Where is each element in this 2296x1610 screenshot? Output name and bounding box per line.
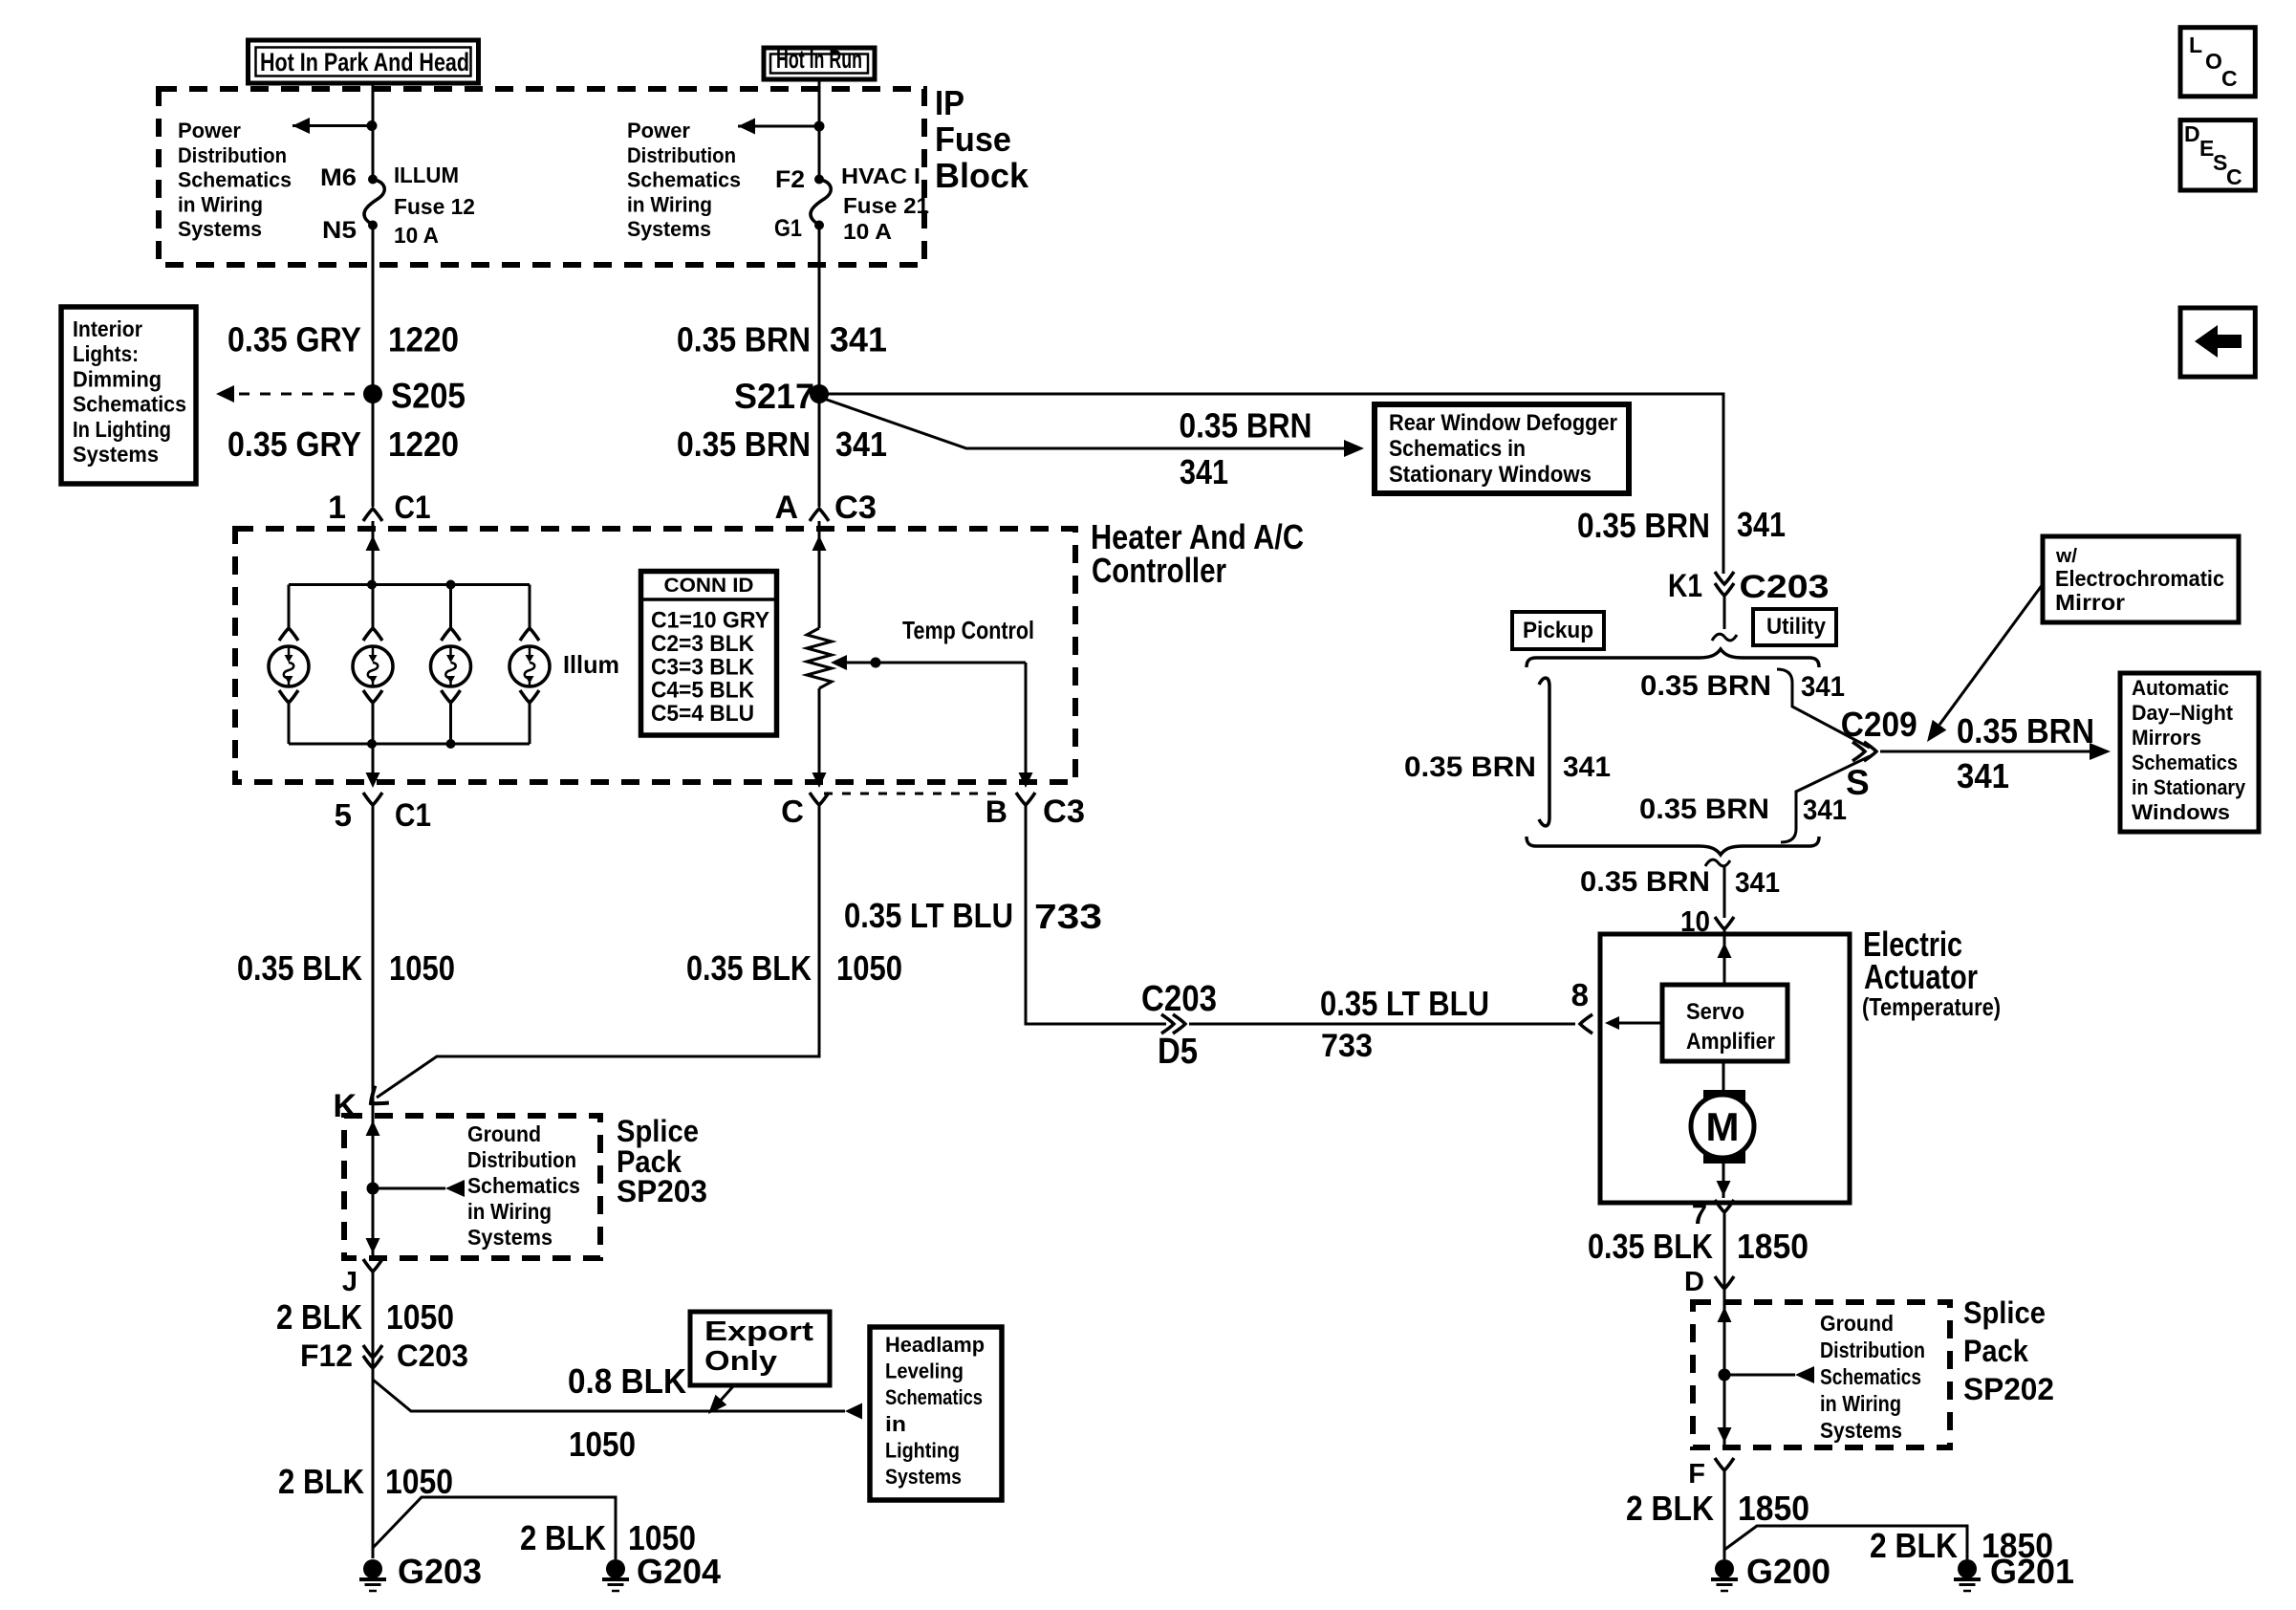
svg-text:Stationary Windows: Stationary Windows: [1389, 462, 1592, 488]
svg-text:0.35 BRN: 0.35 BRN: [1404, 751, 1536, 783]
svg-text:0.35 BRN: 0.35 BRN: [1580, 866, 1710, 898]
svg-text:Systems: Systems: [885, 1465, 962, 1489]
svg-text:341: 341: [1803, 794, 1847, 826]
svg-text:C203: C203: [397, 1338, 468, 1373]
svg-text:341: 341: [1801, 671, 1845, 703]
svg-text:Windows: Windows: [2132, 800, 2230, 824]
svg-text:341: 341: [830, 320, 887, 359]
svg-text:Systems: Systems: [627, 217, 711, 241]
svg-text:Dimming: Dimming: [73, 366, 162, 391]
svg-text:Splice: Splice: [617, 1114, 699, 1148]
svg-text:C3: C3: [834, 490, 877, 526]
svg-text:G200: G200: [1746, 1552, 1830, 1591]
svg-text:D5: D5: [1158, 1032, 1198, 1072]
svg-text:0.35 GRY: 0.35 GRY: [227, 320, 361, 359]
svg-text:Schematics: Schematics: [1820, 1364, 1921, 1389]
svg-text:Interior: Interior: [73, 316, 142, 341]
svg-text:C: C: [781, 794, 804, 829]
svg-text:F2: F2: [775, 166, 805, 193]
svg-text:Schematics: Schematics: [627, 168, 741, 192]
svg-text:Block: Block: [935, 156, 1029, 195]
svg-text:M6: M6: [320, 164, 357, 191]
svg-text:Utility: Utility: [1766, 614, 1827, 640]
svg-text:C: C: [2221, 66, 2238, 91]
svg-text:Pickup: Pickup: [1523, 618, 1593, 643]
svg-text:Illum: Illum: [563, 650, 619, 679]
svg-text:C1: C1: [395, 797, 431, 834]
svg-text:0.35 BLK: 0.35 BLK: [686, 948, 812, 988]
svg-text:M: M: [1706, 1104, 1740, 1149]
svg-text:C4=5 BLK: C4=5 BLK: [651, 678, 754, 704]
svg-text:O: O: [2205, 49, 2222, 74]
svg-text:C2=3 BLK: C2=3 BLK: [651, 631, 754, 657]
svg-text:Systems: Systems: [178, 217, 262, 241]
svg-text:J: J: [342, 1267, 357, 1297]
svg-text:In Lighting: In Lighting: [73, 417, 171, 442]
svg-text:Schematics in: Schematics in: [1389, 436, 1526, 462]
svg-text:0.35 BRN: 0.35 BRN: [1577, 506, 1710, 545]
svg-text:1220: 1220: [388, 424, 459, 464]
svg-text:Schematics: Schematics: [467, 1173, 580, 1198]
svg-text:0.35 LT BLU: 0.35 LT BLU: [1320, 984, 1489, 1023]
svg-text:CONN ID: CONN ID: [664, 575, 754, 597]
svg-text:Systems: Systems: [1820, 1418, 1902, 1443]
svg-text:Pack: Pack: [1963, 1334, 2028, 1368]
svg-text:K: K: [333, 1088, 357, 1124]
svg-text:C209: C209: [1841, 705, 1917, 744]
svg-text:5: 5: [335, 797, 352, 833]
svg-text:Actuator: Actuator: [1864, 957, 1978, 996]
svg-text:Systems: Systems: [73, 442, 159, 467]
svg-text:Schematics: Schematics: [178, 168, 292, 192]
svg-text:1050: 1050: [385, 1462, 453, 1501]
svg-text:0.35 BLK: 0.35 BLK: [237, 948, 362, 988]
svg-text:S205: S205: [391, 377, 466, 416]
svg-text:1050: 1050: [836, 948, 902, 988]
svg-text:341: 341: [1563, 751, 1611, 783]
svg-text:C203: C203: [1141, 979, 1217, 1019]
svg-text:Ground: Ground: [467, 1121, 541, 1146]
svg-text:341: 341: [1180, 452, 1228, 491]
svg-text:B: B: [986, 794, 1007, 829]
svg-text:10 A: 10 A: [394, 223, 439, 248]
svg-text:Hot In Park And Head: Hot In Park And Head: [260, 48, 469, 76]
svg-text:1850: 1850: [1737, 1227, 1809, 1266]
svg-text:Schematics: Schematics: [2132, 751, 2238, 774]
svg-text:in: in: [885, 1412, 906, 1436]
svg-text:SP203: SP203: [617, 1174, 707, 1208]
svg-text:Lighting: Lighting: [885, 1438, 960, 1462]
svg-text:Systems: Systems: [467, 1225, 552, 1250]
svg-text:D: D: [2184, 121, 2200, 146]
svg-text:Splice: Splice: [1963, 1295, 2046, 1330]
svg-text:N5: N5: [322, 217, 357, 244]
svg-text:2 BLK: 2 BLK: [278, 1462, 364, 1501]
svg-text:0.35 BRN: 0.35 BRN: [677, 320, 811, 359]
svg-text:Leveling: Leveling: [885, 1360, 964, 1383]
svg-text:Export: Export: [704, 1316, 813, 1347]
svg-text:G204: G204: [637, 1552, 721, 1591]
svg-text:D: D: [1684, 1267, 1704, 1297]
svg-text:341: 341: [835, 424, 887, 464]
svg-text:0.8 BLK: 0.8 BLK: [568, 1361, 686, 1401]
svg-text:C1=10 GRY: C1=10 GRY: [651, 608, 769, 634]
svg-text:G203: G203: [398, 1552, 482, 1591]
svg-text:Fuse 21: Fuse 21: [843, 193, 929, 218]
svg-text:341: 341: [1957, 756, 2009, 795]
svg-text:K1: K1: [1668, 568, 1702, 604]
svg-text:1: 1: [328, 490, 346, 526]
svg-text:Ground: Ground: [1820, 1311, 1894, 1336]
svg-text:Rear Window Defogger: Rear Window Defogger: [1389, 410, 1617, 436]
svg-text:C5=4 BLU: C5=4 BLU: [651, 701, 754, 727]
svg-text:IP: IP: [935, 83, 964, 122]
svg-text:Amplifier: Amplifier: [1686, 1029, 1775, 1055]
svg-text:1050: 1050: [569, 1425, 636, 1464]
svg-text:0.35 BRN: 0.35 BRN: [1639, 794, 1769, 825]
svg-text:Schematics: Schematics: [73, 392, 186, 417]
svg-text:0.35 BRN: 0.35 BRN: [1180, 406, 1312, 446]
svg-text:1050: 1050: [386, 1297, 454, 1337]
svg-text:L: L: [2189, 33, 2202, 57]
svg-text:S217: S217: [734, 377, 814, 416]
svg-text:0.35 BRN: 0.35 BRN: [677, 424, 811, 464]
svg-text:G1: G1: [774, 215, 802, 242]
svg-text:Fuse 12: Fuse 12: [394, 194, 475, 219]
svg-text:Day–Night: Day–Night: [2132, 701, 2233, 725]
svg-text:8: 8: [1571, 977, 1589, 1012]
svg-text:Headlamp: Headlamp: [885, 1333, 985, 1357]
svg-text:733: 733: [1321, 1028, 1373, 1064]
svg-text:Fuse: Fuse: [935, 120, 1011, 159]
svg-text:Distribution: Distribution: [178, 143, 287, 167]
svg-text:C1: C1: [395, 490, 431, 526]
svg-text:341: 341: [1737, 505, 1786, 544]
svg-text:Controller: Controller: [1092, 551, 1226, 590]
svg-text:2 BLK: 2 BLK: [520, 1518, 606, 1557]
svg-text:733: 733: [1034, 897, 1102, 936]
svg-text:Mirrors: Mirrors: [2132, 726, 2201, 750]
svg-text:SP202: SP202: [1963, 1372, 2054, 1406]
svg-text:Distribution: Distribution: [467, 1147, 576, 1172]
svg-text:C203: C203: [1740, 569, 1830, 605]
svg-text:S: S: [1846, 763, 1870, 802]
svg-text:Distribution: Distribution: [1820, 1338, 1925, 1362]
svg-text:in Wiring: in Wiring: [1820, 1391, 1901, 1416]
svg-text:F: F: [1688, 1459, 1705, 1490]
svg-text:1220: 1220: [388, 320, 459, 359]
svg-text:C3: C3: [1043, 794, 1085, 830]
svg-text:Mirror: Mirror: [2055, 590, 2125, 615]
svg-text:0.35 BRN: 0.35 BRN: [1957, 711, 2094, 751]
svg-text:Hot In Run: Hot In Run: [776, 45, 862, 74]
svg-text:0.35 BRN: 0.35 BRN: [1640, 670, 1771, 702]
svg-text:w/: w/: [2055, 546, 2077, 567]
svg-text:Power: Power: [178, 119, 241, 142]
svg-text:2 BLK: 2 BLK: [1626, 1489, 1714, 1528]
svg-text:(Temperature): (Temperature): [1862, 992, 2001, 1021]
svg-text:2 BLK: 2 BLK: [276, 1297, 362, 1337]
svg-text:1850: 1850: [1738, 1489, 1809, 1528]
svg-text:F12: F12: [300, 1338, 353, 1373]
svg-text:HVAC I: HVAC I: [841, 163, 921, 188]
svg-text:1050: 1050: [389, 948, 455, 988]
svg-text:in Wiring: in Wiring: [178, 192, 263, 216]
svg-text:Electrochromatic: Electrochromatic: [2055, 566, 2224, 591]
svg-text:in Stationary: in Stationary: [2132, 775, 2245, 799]
svg-text:ILLUM: ILLUM: [394, 163, 459, 187]
svg-text:A: A: [774, 490, 798, 526]
svg-text:Servo: Servo: [1686, 999, 1744, 1025]
svg-text:341: 341: [1735, 867, 1780, 899]
svg-text:0.35 GRY: 0.35 GRY: [227, 424, 361, 464]
svg-text:Lights:: Lights:: [73, 341, 139, 366]
svg-text:C3=3 BLK: C3=3 BLK: [651, 654, 754, 680]
svg-text:Power: Power: [627, 119, 690, 142]
svg-text:Only: Only: [704, 1346, 777, 1377]
svg-text:Distribution: Distribution: [627, 143, 736, 167]
svg-text:Automatic: Automatic: [2132, 676, 2229, 700]
svg-text:in Wiring: in Wiring: [467, 1199, 552, 1224]
svg-text:G201: G201: [1990, 1552, 2074, 1591]
svg-text:Temp Control: Temp Control: [902, 616, 1034, 644]
svg-text:in Wiring: in Wiring: [627, 192, 712, 216]
svg-text:Schematics: Schematics: [885, 1385, 983, 1409]
svg-text:C: C: [2226, 164, 2242, 189]
svg-text:2 BLK: 2 BLK: [1870, 1526, 1958, 1565]
svg-text:10 A: 10 A: [843, 219, 892, 244]
svg-text:0.35 BLK: 0.35 BLK: [1588, 1227, 1713, 1266]
svg-text:0.35 LT BLU: 0.35 LT BLU: [844, 896, 1013, 935]
